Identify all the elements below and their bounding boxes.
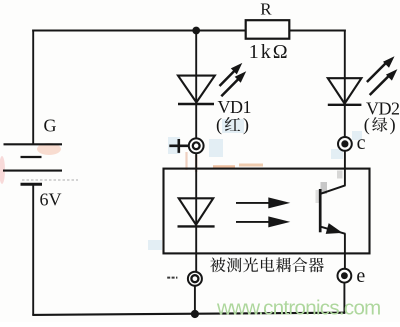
LED VD2 cathode bar — [328, 104, 362, 106]
svg-text:(: ( — [216, 115, 222, 136]
scan artifact: orange dashes on coupler box top edge — [213, 165, 235, 167]
scan artifact: gray ghosts near transistor — [321, 182, 328, 194]
terminal c (collector) — [338, 137, 352, 151]
wire: left vertical from top rail to battery — [32, 30, 34, 145]
svg-text:): ) — [390, 114, 396, 135]
wire: c terminal into box to phototransistor collector — [344, 151, 346, 186]
battery G plate long lower — [3, 170, 62, 172]
battery G plate long top — [4, 143, 63, 145]
optocoupler box (device under test) — [164, 169, 370, 254]
svg-text:6V: 6V — [40, 189, 62, 209]
wire: - terminal down to bottom rail — [194, 286, 196, 315]
svg-text:R: R — [260, 0, 272, 19]
svg-text:e: e — [356, 265, 365, 287]
label - — [167, 277, 177, 279]
wire: top horizontal rail right of resistor — [289, 30, 346, 32]
wire: top horizontal rail left of resistor — [32, 30, 246, 32]
svg-text:1kΩ: 1kΩ — [249, 41, 290, 63]
LED VD1 emission arrow 1 — [220, 70, 236, 86]
wire: e terminal down to bottom rail — [343, 282, 345, 313]
LED VD1 emission arrow 2 — [221, 78, 239, 96]
optocoupler internal LED triangle — [179, 198, 214, 224]
svg-text:www.cntronics.com: www.cntronics.com — [216, 297, 381, 320]
svg-text:G: G — [44, 115, 57, 135]
node: junction dot on bottom rail — [191, 310, 199, 318]
LED VD2 triangle — [328, 78, 362, 103]
wire: phototransistor emitter out of box to e terminal — [344, 234, 346, 270]
scan artifact: gray dashed line near battery — [22, 179, 78, 181]
wire: bottom horizontal rail — [32, 313, 345, 315]
LED VD1 triangle — [178, 76, 215, 103]
wire: right vertical (top rail through VD2 to c terminal) — [344, 30, 346, 138]
terminal + (anode) — [189, 138, 204, 153]
LED VD2 emission arrow 2 — [370, 75, 390, 95]
resistor R — [246, 20, 290, 39]
scan artifact: pink blob near battery — [37, 143, 61, 155]
optocoupler internal LED cathode bar — [178, 225, 215, 227]
wire: VD1 branch vertical (top rail to + terminal) — [195, 31, 197, 139]
scan artifact: blue patches — [222, 119, 244, 133]
phototransistor emitter arrow — [326, 223, 343, 234]
svg-text:): ) — [243, 115, 249, 136]
svg-text:c: c — [357, 132, 366, 154]
phototransistor emitter lead — [320, 227, 345, 234]
optical coupling arrow 1 — [236, 202, 272, 204]
LED VD1 cathode bar — [178, 103, 214, 105]
phototransistor collector lead — [321, 185, 345, 193]
battery G plate short — [21, 156, 42, 158]
caption: optocoupler under test (Chinese) — [210, 257, 225, 272]
phototransistor base bar — [319, 189, 322, 232]
node: junction dot on top rail — [192, 27, 200, 35]
wire: + terminal into coupler box to LED — [195, 154, 197, 272]
terminal - (cathode) — [188, 272, 202, 286]
label + — [169, 139, 188, 153]
wire: left vertical from battery to bottom rail — [32, 184, 34, 315]
optical coupling arrow 2 — [236, 221, 272, 223]
LED VD2 emission arrow 1 — [367, 62, 387, 82]
terminal e (emitter) — [338, 269, 352, 283]
battery G plate short bottom — [21, 183, 43, 186]
